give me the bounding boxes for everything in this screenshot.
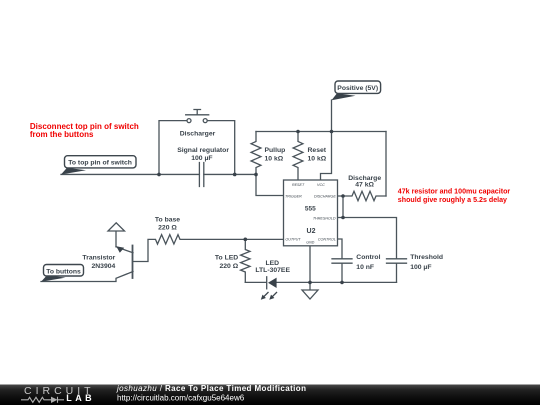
svg-text:GND: GND [306,240,314,244]
svg-text:Pullup: Pullup [265,147,286,154]
svg-text:http://circuitlab.com/cafxgu5e: http://circuitlab.com/cafxgu5e64ew6 [117,394,245,403]
svg-text:U2: U2 [307,228,316,235]
svg-text:joshuazhu / Race To Place Time: joshuazhu / Race To Place Timed Modifica… [116,384,306,393]
svg-text:To base: To base [155,217,180,224]
svg-text:from the buttons: from the buttons [30,130,94,139]
svg-text:OUTPUT: OUTPUT [285,238,301,242]
svg-text:100 µF: 100 µF [191,155,212,162]
svg-text:10 kΩ: 10 kΩ [308,156,327,163]
svg-text:47 kΩ: 47 kΩ [355,182,374,189]
svg-text:10 nF: 10 nF [356,264,374,271]
svg-text:DISCHARGE: DISCHARGE [314,195,336,199]
svg-text:To top pin of switch: To top pin of switch [68,159,132,166]
svg-text:Discharger: Discharger [180,131,216,138]
svg-text:220 Ω: 220 Ω [220,263,239,270]
svg-text:TRIGGER: TRIGGER [285,195,302,199]
svg-text:CONTROL: CONTROL [318,238,336,242]
svg-text:Reset: Reset [308,147,327,154]
svg-text:LTL-307EE: LTL-307EE [255,267,290,274]
svg-text:555: 555 [305,205,316,212]
svg-text:Positive (5V): Positive (5V) [337,85,378,92]
svg-text:220 Ω: 220 Ω [158,225,177,232]
svg-text:RESET: RESET [292,183,305,187]
svg-text:Signal regulator: Signal regulator [177,147,229,154]
svg-text:To buttons: To buttons [46,269,81,276]
svg-text:VCC: VCC [317,183,325,187]
svg-text:Control: Control [356,254,380,261]
svg-text:should give roughly a 5.2s del: should give roughly a 5.2s delay [398,196,507,204]
svg-text:THRESHOLD: THRESHOLD [313,216,336,220]
svg-text:To LED: To LED [215,254,238,261]
svg-text:10 kΩ: 10 kΩ [265,156,284,163]
svg-text:47k resistor and 100mu capacit: 47k resistor and 100mu capacitor [398,187,511,195]
svg-text:2N3904: 2N3904 [91,263,115,270]
svg-text:LED: LED [265,260,279,267]
svg-text:Transistor: Transistor [82,255,115,262]
svg-text:100 µF: 100 µF [410,264,431,271]
svg-text:Threshold: Threshold [410,254,443,261]
svg-text:LAB: LAB [66,393,95,403]
